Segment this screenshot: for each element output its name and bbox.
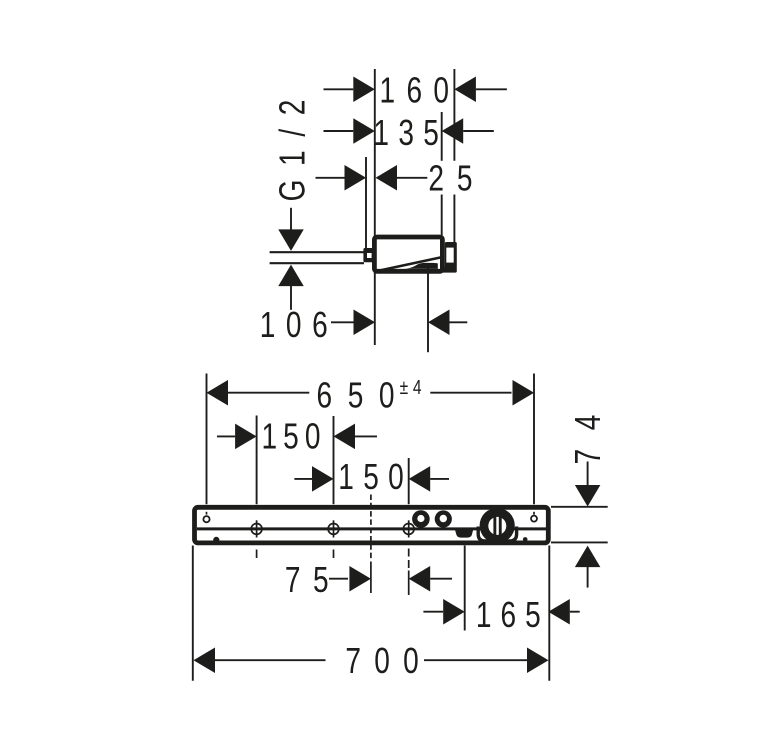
extension line 160 right lower segment bbox=[453, 195, 455, 243]
svg-text:G1/2: G1/2 bbox=[272, 86, 312, 201]
arrow 106 left bbox=[354, 310, 376, 336]
svg-text:135: 135 bbox=[373, 112, 448, 152]
arrow 650 right bbox=[513, 380, 535, 406]
screw hole left bbox=[203, 516, 209, 522]
arrow 650 left bbox=[207, 380, 229, 406]
valve bottom-right step bbox=[440, 267, 457, 273]
arrow 74 down bbox=[575, 485, 601, 507]
thermostat knob inner white bbox=[488, 517, 506, 535]
svg-text:74: 74 bbox=[568, 396, 608, 465]
ring knob 1 inner bbox=[417, 515, 424, 522]
arrow 135 left bbox=[353, 118, 375, 144]
dimension 106 line left tail bbox=[331, 321, 354, 323]
fixing crosshair 3 circle bbox=[403, 524, 414, 535]
arrow 165 left bbox=[443, 599, 465, 625]
svg-text:165: 165 bbox=[476, 595, 550, 635]
knob grip bar left bbox=[493, 517, 496, 535]
dimension 160 line right tail bbox=[476, 88, 507, 90]
dimension 25 line right tail bbox=[397, 177, 427, 179]
arrow 25 left bbox=[345, 165, 367, 191]
hole3 dashed below bar bbox=[408, 549, 410, 569]
valve end cap inner bbox=[446, 248, 453, 263]
arrow 700 left bbox=[194, 647, 216, 673]
arrow 700 right bbox=[527, 647, 549, 673]
G1/2 dimension lower line bbox=[290, 286, 292, 310]
arrow 150a right bbox=[334, 424, 356, 450]
screw dash left inside bar bbox=[206, 512, 208, 515]
dimension 75 left tail bbox=[329, 578, 348, 580]
dimension 650 line right bbox=[430, 392, 511, 394]
dimension 150a left tail bbox=[217, 435, 235, 437]
extension line G1/2 stub face (x=366) bbox=[365, 157, 367, 248]
ring knob 2 bbox=[435, 510, 452, 527]
arrow G1/2 down bbox=[278, 229, 304, 251]
arrow G1/2 up bbox=[278, 265, 304, 287]
74 extension top bbox=[551, 506, 608, 508]
hole1 dash below bar bbox=[256, 550, 258, 559]
arrow 75 right bbox=[409, 566, 431, 592]
screw dash right inside bar bbox=[533, 512, 535, 515]
arrow 150a left bbox=[235, 424, 257, 450]
extension line select button (x=464.7) bbox=[464, 546, 466, 631]
fixing crosshair 1 circle bbox=[251, 524, 262, 535]
pipe line bottom bbox=[270, 262, 364, 264]
fixing crosshair 2 circle bbox=[328, 524, 339, 535]
extension line bar left edge (x=192.8) bbox=[192, 546, 194, 681]
dimension 150b right tail bbox=[430, 478, 449, 480]
dimension 165 left tail bbox=[423, 611, 443, 613]
bottom dot right bbox=[523, 537, 528, 542]
extension line 135 right (x=441.7 upper) bbox=[441, 112, 443, 161]
dimension 106 line right tail bbox=[449, 321, 467, 323]
svg-text:650: 650 bbox=[316, 375, 410, 415]
extension line 650 right (x=534) bbox=[533, 374, 535, 505]
arrow 150b right bbox=[409, 466, 431, 492]
G1/2 dimension upper line bbox=[290, 208, 292, 230]
fixing crosshair 1 vertical bbox=[256, 520, 258, 537]
dimension 160 line left tail bbox=[324, 88, 354, 90]
hole2 dash below bar bbox=[333, 550, 335, 559]
extension line bar right edge (x=549.3) bbox=[548, 546, 550, 681]
arrow 25 right bbox=[376, 165, 398, 191]
svg-text:150: 150 bbox=[338, 456, 413, 496]
arrow 75 left bbox=[349, 566, 371, 592]
fixing crosshair 3 vertical bbox=[408, 520, 410, 537]
fixing crosshair 2 vertical bbox=[333, 520, 335, 537]
svg-text:75: 75 bbox=[285, 560, 341, 600]
arrow 160 left bbox=[353, 77, 375, 103]
dimension 700 line right bbox=[424, 659, 527, 661]
centerline solid segment bbox=[370, 562, 372, 594]
valve wall stub slit bbox=[367, 253, 372, 258]
svg-text:106: 106 bbox=[260, 305, 338, 345]
extension line 106 right (x=428) bbox=[427, 267, 429, 352]
bottom dot left bbox=[213, 537, 219, 543]
extension line hole1 (x=256) bbox=[256, 416, 258, 505]
arrow 150b left bbox=[312, 466, 334, 492]
valve diagonal lever line bbox=[376, 257, 441, 271]
extension line wall face (x=374.8) bbox=[374, 69, 376, 345]
valve end cap right bbox=[445, 242, 457, 268]
extension line hole2 (x=333.5) bbox=[333, 416, 335, 504]
dimension 150a right tail bbox=[355, 435, 377, 437]
dimension 75 right tail bbox=[430, 578, 452, 580]
screw hole right bbox=[531, 516, 537, 522]
svg-text:150: 150 bbox=[261, 416, 326, 456]
74 dim lower line bbox=[587, 567, 589, 588]
dimension 165 right tail bbox=[570, 611, 580, 613]
arrow 160 right bbox=[454, 77, 476, 103]
arrow 135 right bbox=[442, 118, 464, 144]
knob grip bar right bbox=[499, 517, 502, 535]
arrow 165 right bbox=[548, 599, 570, 625]
74 extension bottom bbox=[551, 541, 608, 543]
valve body outline bbox=[374, 237, 442, 271]
knob base bracket bbox=[478, 527, 516, 542]
arrow 106 right bbox=[428, 310, 450, 336]
extension line 160 right (x=454.4 upper) bbox=[453, 69, 455, 161]
pipe line top bbox=[270, 251, 364, 253]
thermostat knob disc bbox=[480, 508, 515, 543]
valve lever hook bbox=[404, 263, 438, 269]
dimension 650 line left bbox=[228, 392, 309, 394]
centerline dashed (x=370.9) bbox=[370, 495, 372, 560]
bar middle line bbox=[197, 527, 546, 530]
dimension 150b left tail bbox=[294, 478, 312, 480]
valve wall stub (left tab) bbox=[363, 248, 374, 262]
ring knob 2 inner bbox=[440, 515, 447, 522]
select button bbox=[455, 529, 474, 537]
arrow 74 up bbox=[575, 546, 601, 568]
extension line hole3 (x=408.5) bbox=[408, 458, 410, 504]
shower bar outline bbox=[195, 507, 549, 543]
dimension 135 line left tail bbox=[324, 130, 354, 132]
ring knob 1 bbox=[412, 510, 430, 528]
dimension 700 line left bbox=[215, 659, 326, 661]
dimension 135 line right tail bbox=[463, 130, 494, 132]
hole3 solid segment bbox=[408, 571, 410, 596]
svg-text:±4: ±4 bbox=[400, 376, 427, 398]
extension line 650 left (x=206.5) bbox=[206, 374, 208, 505]
svg-text:700: 700 bbox=[345, 641, 432, 681]
svg-text:160: 160 bbox=[380, 70, 461, 110]
dimension 25 line left tail bbox=[316, 177, 345, 179]
74 dim upper line bbox=[587, 462, 589, 486]
extension line 135 right lower segment bbox=[441, 195, 443, 236]
svg-text:25: 25 bbox=[428, 158, 485, 198]
